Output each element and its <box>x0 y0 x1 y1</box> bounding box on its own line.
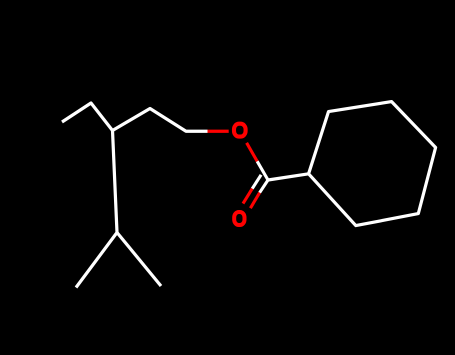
bond C6=O2 main line red half <box>250 193 259 209</box>
bond C6=O2 second line white half <box>252 175 261 189</box>
bond C6=O2 main line white half <box>260 180 268 193</box>
bond O1-C6 red half <box>247 143 258 162</box>
bond C3-C7 long connector with lambda left leg C7-C8 <box>76 131 117 288</box>
atom O2 carbonyl oxygen label <box>234 212 244 225</box>
bond C1-O1 red half <box>208 130 229 133</box>
bond O1-C6 white half to carbonyl carbon <box>257 161 268 180</box>
chain C5-C4-C3-C2-C1 and C1-O1 white half (alkyl zig-zag) <box>62 103 208 131</box>
cyclohexane ring R1-R2-R3-R4-R5-R6 <box>309 102 436 226</box>
atom O1 ester oxygen label <box>234 124 246 137</box>
bond C6=O2 second line red half <box>243 189 252 204</box>
bond C6-R1 carbonyl carbon to ring <box>268 174 309 180</box>
bond C7-C9 lambda right leg <box>117 233 161 287</box>
